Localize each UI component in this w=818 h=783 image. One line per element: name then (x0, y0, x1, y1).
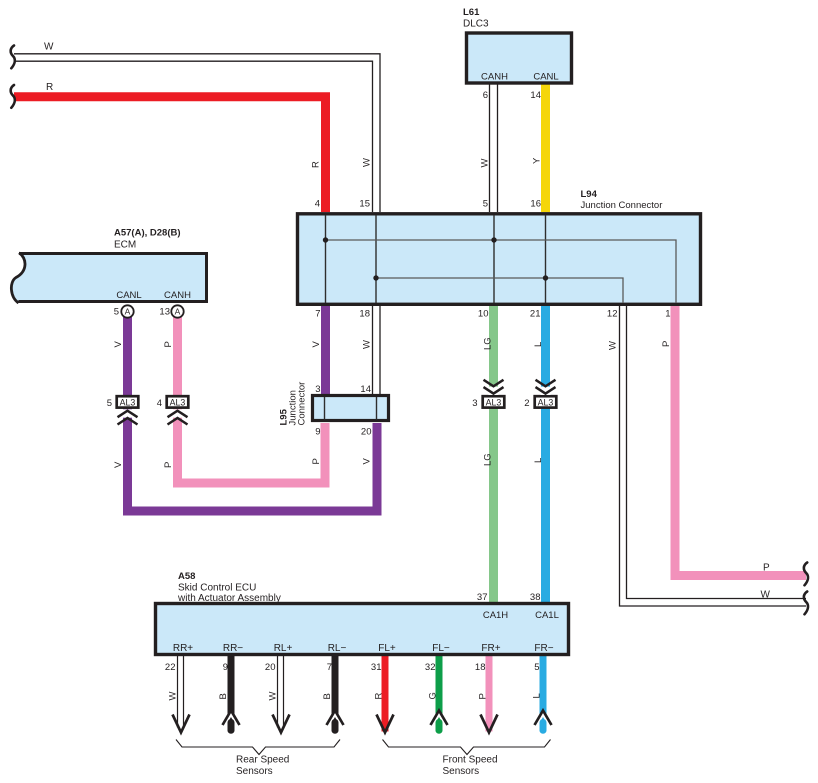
svg-text:10: 10 (478, 309, 489, 320)
svg-text:W: W (268, 692, 279, 701)
svg-text:B: B (218, 693, 229, 699)
svg-text:W: W (761, 590, 771, 601)
svg-text:14: 14 (360, 384, 371, 395)
svg-text:L: L (533, 458, 544, 463)
svg-text:L61: L61 (463, 7, 480, 18)
svg-text:W: W (480, 159, 491, 168)
svg-text:31: 31 (371, 662, 382, 673)
svg-text:CANH: CANH (481, 72, 508, 83)
svg-text:FL−: FL− (432, 643, 450, 654)
svg-text:L: L (533, 342, 544, 347)
svg-text:R: R (311, 161, 322, 168)
svg-text:AL3: AL3 (120, 398, 136, 408)
svg-text:R: R (374, 693, 385, 700)
svg-text:5: 5 (114, 307, 119, 318)
svg-text:Rear Speed: Rear Speed (236, 755, 289, 766)
svg-text:21: 21 (530, 309, 541, 320)
svg-text:G: G (428, 692, 439, 699)
svg-text:ECM: ECM (114, 240, 136, 251)
svg-text:15: 15 (359, 199, 370, 210)
svg-text:5: 5 (107, 398, 112, 409)
svg-text:A58: A58 (178, 571, 195, 582)
svg-text:5: 5 (534, 662, 539, 673)
svg-text:9: 9 (315, 427, 320, 438)
svg-text:Junction Connector: Junction Connector (581, 200, 663, 211)
svg-text:AL3: AL3 (486, 398, 502, 408)
svg-text:W: W (362, 340, 373, 349)
svg-text:B: B (322, 693, 333, 699)
svg-text:3: 3 (315, 384, 320, 395)
svg-text:W: W (608, 341, 619, 350)
svg-text:14: 14 (530, 90, 541, 101)
svg-text:FR−: FR− (534, 643, 553, 654)
svg-text:4: 4 (157, 398, 162, 409)
svg-text:22: 22 (165, 662, 176, 673)
svg-text:Skid Control ECU: Skid Control ECU (178, 583, 256, 594)
svg-text:Sensors: Sensors (443, 766, 480, 777)
svg-text:5: 5 (483, 199, 488, 210)
svg-text:RL+: RL+ (274, 643, 293, 654)
svg-text:Front Speed: Front Speed (443, 755, 498, 766)
svg-text:32: 32 (425, 662, 436, 673)
svg-text:RR−: RR− (223, 643, 243, 654)
svg-text:with Actuator Assembly: with Actuator Assembly (177, 593, 281, 604)
svg-text:V: V (113, 461, 124, 468)
svg-text:CANH: CANH (164, 290, 191, 301)
svg-text:37: 37 (477, 592, 488, 603)
svg-text:16: 16 (530, 199, 541, 210)
svg-text:1: 1 (665, 309, 670, 320)
svg-text:CANL: CANL (116, 290, 141, 301)
svg-text:P: P (163, 341, 174, 347)
svg-text:P: P (163, 462, 174, 468)
svg-text:Y: Y (532, 157, 543, 164)
svg-text:2: 2 (524, 398, 529, 409)
svg-text:7: 7 (327, 662, 332, 673)
svg-text:R: R (46, 82, 53, 93)
svg-text:P: P (478, 693, 489, 699)
svg-text:W: W (362, 158, 373, 167)
svg-text:RR+: RR+ (173, 643, 193, 654)
svg-text:18: 18 (359, 309, 370, 320)
svg-text:P: P (311, 458, 322, 464)
svg-text:20: 20 (265, 662, 276, 673)
svg-text:6: 6 (483, 90, 488, 101)
svg-text:CA1H: CA1H (483, 610, 508, 621)
svg-text:RL−: RL− (328, 643, 347, 654)
svg-text:W: W (44, 42, 54, 53)
svg-text:20: 20 (361, 427, 372, 438)
svg-text:V: V (113, 341, 124, 348)
svg-text:AL3: AL3 (538, 398, 554, 408)
svg-text:A: A (125, 307, 131, 317)
svg-text:3: 3 (472, 398, 477, 409)
svg-text:A: A (175, 307, 181, 317)
svg-text:AL3: AL3 (170, 398, 186, 408)
svg-text:P: P (763, 563, 770, 574)
svg-text:P: P (661, 341, 672, 347)
svg-text:13: 13 (159, 307, 170, 318)
svg-text:LG: LG (483, 453, 494, 466)
svg-text:CANL: CANL (533, 72, 558, 83)
svg-text:9: 9 (223, 662, 228, 673)
svg-text:CA1L: CA1L (535, 610, 559, 621)
svg-text:18: 18 (475, 662, 486, 673)
svg-text:A57(A), D28(B): A57(A), D28(B) (114, 228, 181, 239)
svg-text:FL+: FL+ (378, 643, 396, 654)
svg-text:W: W (168, 692, 179, 701)
svg-text:12: 12 (607, 309, 618, 320)
svg-text:DLC3: DLC3 (463, 19, 489, 30)
svg-text:4: 4 (315, 199, 320, 210)
svg-text:L: L (532, 693, 543, 698)
svg-text:V: V (311, 341, 322, 348)
svg-text:FR+: FR+ (481, 643, 500, 654)
svg-text:Connector: Connector (297, 382, 308, 426)
svg-text:L94: L94 (581, 189, 598, 200)
svg-text:38: 38 (530, 592, 541, 603)
svg-text:LG: LG (483, 337, 494, 350)
svg-text:Sensors: Sensors (236, 766, 273, 777)
svg-text:7: 7 (315, 309, 320, 320)
svg-text:V: V (362, 458, 373, 465)
